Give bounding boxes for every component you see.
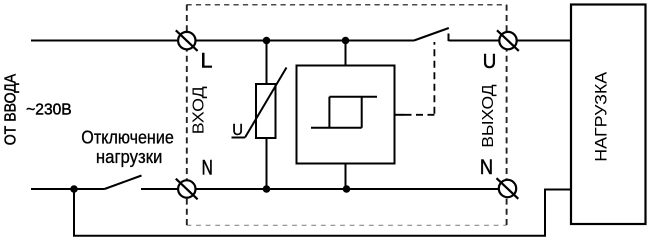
relay switch fixed contact tick xyxy=(448,34,450,42)
wire U output to load xyxy=(517,40,572,42)
svg-text:U: U xyxy=(232,122,243,139)
svg-text:U: U xyxy=(483,51,497,73)
wire L to output terminal xyxy=(449,40,500,42)
dashed device boundary top edge xyxy=(187,4,507,6)
dashed control line horizontal xyxy=(405,114,435,116)
hysteresis symbol lower line xyxy=(311,127,362,129)
svg-text:N: N xyxy=(480,156,493,179)
terminal U output xyxy=(497,30,519,51)
wire L input from source xyxy=(31,40,177,42)
svg-text:нагрузки: нагрузки xyxy=(96,146,162,167)
svg-text:ОТ ВВОДА: ОТ ВВОДА xyxy=(3,73,20,145)
load box xyxy=(571,5,646,225)
hysteresis symbol right vertical xyxy=(361,97,363,128)
svg-text:~230В: ~230В xyxy=(26,101,71,118)
varistor diagonal stroke xyxy=(245,68,287,138)
wire N to input terminal xyxy=(141,188,178,190)
junction dot N bypass xyxy=(70,185,78,193)
svg-text:ВХОД: ВХОД xyxy=(191,86,208,135)
junction dot N varistor xyxy=(263,185,271,193)
terminal N output xyxy=(497,178,519,199)
terminal L input xyxy=(176,30,198,51)
svg-text:НАГРУЗКА: НАГРУЗКА xyxy=(592,71,611,162)
dashed device boundary right edge xyxy=(506,5,508,226)
relay control stub xyxy=(395,114,405,116)
junction dot L relay xyxy=(342,37,350,45)
svg-text:L: L xyxy=(201,49,213,72)
varistor RU1 body xyxy=(256,84,276,138)
svg-text:N: N xyxy=(202,156,213,179)
wire bottom bypass rail xyxy=(74,189,572,236)
svg-text:Отключение: Отключение xyxy=(81,126,174,147)
wire N input from source xyxy=(31,188,105,190)
dashed device boundary bottom edge xyxy=(187,224,507,226)
wire varistor top drop xyxy=(266,41,268,85)
wire relay box top drop xyxy=(345,41,347,66)
dashed device boundary left edge xyxy=(186,5,188,226)
terminal N input xyxy=(176,179,198,200)
relay switch blade xyxy=(414,28,449,41)
wire relay box bottom drop xyxy=(345,164,347,190)
varistor diagonal foot xyxy=(232,137,246,139)
load disconnect switch blade xyxy=(105,176,142,190)
wire L internal to switch pivot xyxy=(197,40,415,42)
wire N internal xyxy=(196,188,499,190)
relay control unit box xyxy=(297,66,395,164)
junction dot N relay xyxy=(343,185,351,193)
wire varistor bottom drop xyxy=(266,138,268,189)
svg-text:ВЫХОД: ВЫХОД xyxy=(480,84,497,148)
hysteresis symbol upper line xyxy=(329,96,377,98)
hysteresis symbol left vertical xyxy=(328,97,330,128)
junction dot L varistor xyxy=(263,37,271,45)
dashed control line vertical xyxy=(433,42,435,114)
